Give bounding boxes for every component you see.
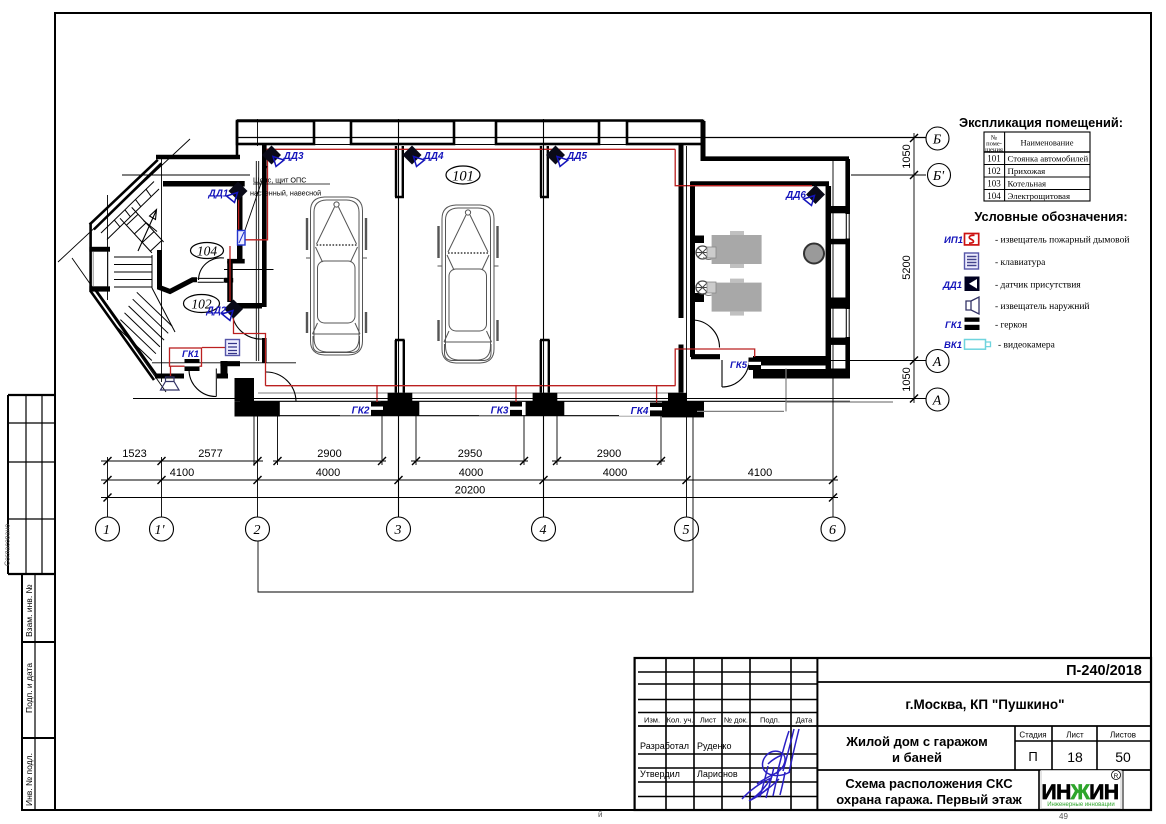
- svg-text:Ларионов: Ларионов: [697, 769, 738, 779]
- stairs flight B (horizontal treads): [114, 255, 152, 288]
- svg-text:- датчик присутствия: - датчик присутствия: [995, 281, 1081, 291]
- SW diagonal wall inner: [94, 288, 157, 377]
- garage west wall lower (below door): [262, 338, 267, 363]
- hall bottom wall: [155, 374, 184, 379]
- svg-text:Согласовано: Согласовано: [5, 524, 12, 566]
- stairs flight A lower run perpendicular band: [120, 207, 164, 253]
- svg-text:Кол. уч.: Кол. уч.: [667, 716, 694, 725]
- NE wing: corner drop: [701, 121, 706, 161]
- car 2: [438, 205, 499, 363]
- svg-text:ДД1: ДД1: [942, 280, 962, 291]
- wall axis diagonal extension lines: [58, 139, 190, 262]
- svg-text:Разработал: Разработал: [640, 741, 689, 751]
- garage east wall lower: [679, 345, 684, 393]
- svg-text:5: 5: [683, 523, 690, 538]
- svg-text:1': 1': [155, 523, 166, 538]
- svg-text:Наименование: Наименование: [1021, 138, 1074, 148]
- inner stair wall zigzag: [160, 250, 198, 292]
- left margin approval table: [8, 395, 55, 574]
- room 102 east wall: [227, 261, 233, 302]
- GK5 door arc: [722, 360, 749, 387]
- svg-text:Б: Б: [932, 133, 941, 148]
- svg-text:104: 104: [987, 191, 1001, 201]
- entry door arc: [189, 370, 216, 397]
- svg-text:50: 50: [1115, 749, 1131, 765]
- svg-text:й: й: [598, 810, 602, 819]
- svg-text:ДД2: ДД2: [205, 306, 226, 317]
- svg-text:4000: 4000: [316, 467, 340, 479]
- legend item IP1: [944, 234, 1129, 247]
- thin line across 104: [224, 269, 274, 271]
- svg-text:ДД3: ДД3: [283, 151, 304, 162]
- horizontal axis extension lines: [237, 137, 926, 139]
- jog at boiler south wall: [753, 356, 761, 379]
- room label 104: [191, 243, 224, 259]
- car 1: [306, 197, 367, 355]
- svg-text:Лист: Лист: [1066, 731, 1084, 740]
- svg-text:А: А: [932, 394, 942, 409]
- T pier axis4: [540, 340, 550, 393]
- lower door arc to garage area: [266, 372, 296, 401]
- dim texts: [122, 144, 913, 496]
- stair direction arrow: [138, 210, 157, 252]
- presence detector DD2: [205, 300, 243, 321]
- legend item keyboard: [965, 253, 1047, 269]
- svg-text:- геркон: - геркон: [995, 321, 1027, 331]
- room label 101: [446, 166, 480, 184]
- svg-text:ВК1: ВК1: [944, 340, 962, 351]
- east outer wall: [845, 159, 850, 378]
- keyboard symbol on plan: [226, 340, 240, 356]
- svg-text:Взам. инв. №: Взам. инв. №: [24, 584, 34, 637]
- stubs from inner east wall to outer: [831, 206, 849, 213]
- windows in east outer wall: [845, 214, 850, 239]
- svg-text:№ док.: № док.: [724, 716, 748, 725]
- dim row 3: [101, 497, 838, 499]
- svg-text:ГК5: ГК5: [730, 360, 748, 371]
- west window blocks: [89, 247, 110, 252]
- legend item DD1: [942, 277, 1081, 292]
- svg-text:18: 18: [1067, 749, 1083, 765]
- svg-text:Дата: Дата: [796, 716, 813, 725]
- reed switch GK5: [730, 358, 761, 372]
- svg-text:Б': Б': [932, 169, 945, 184]
- left end drop of north wall: [236, 121, 239, 158]
- reed switch GK3: [479, 402, 522, 417]
- svg-text:ГК2: ГК2: [352, 406, 370, 417]
- svg-text:R: R: [1114, 773, 1119, 780]
- left margin boxes: [22, 574, 55, 810]
- svg-text:1050: 1050: [901, 144, 913, 168]
- boiler south wall right piece: [760, 356, 831, 366]
- svg-text:- клавиатура: - клавиатура: [995, 258, 1046, 268]
- garage east wall upper: [679, 144, 684, 318]
- svg-text:104: 104: [197, 244, 218, 259]
- boiler 1: [712, 235, 762, 264]
- signature scribble: [742, 729, 799, 801]
- room label 102: [184, 295, 220, 313]
- room 104 north wall: [163, 181, 245, 187]
- reed switch GK1: [182, 349, 199, 371]
- svg-text:Стадия: Стадия: [1019, 731, 1046, 740]
- north wall pier 3: [496, 121, 599, 144]
- SE corner step blocks: [668, 393, 687, 402]
- svg-text:щения: щения: [985, 147, 1003, 154]
- svg-text:1: 1: [103, 523, 110, 538]
- presence detector DD6: [785, 185, 825, 206]
- axis circles right: [926, 127, 951, 411]
- boiler west wall: [690, 182, 695, 358]
- wall from diagonal to garage west wall: [156, 155, 240, 160]
- svg-text:Жилой дом с гаражом: Жилой дом с гаражом: [845, 734, 988, 749]
- legend item speaker: [966, 297, 1090, 314]
- svg-text:4: 4: [540, 523, 547, 538]
- svg-text:г.Москва, КП "Пушкино": г.Москва, КП "Пушкино": [905, 697, 1064, 712]
- dim ticks: [104, 134, 919, 502]
- bracket below: [258, 412, 693, 592]
- stairs flight C (diagonal treads): [116, 288, 175, 361]
- svg-text:Прихожая: Прихожая: [1008, 166, 1046, 176]
- svg-text:Руденко: Руденко: [697, 741, 731, 751]
- axis circles bottom: [96, 517, 846, 541]
- NE wing north wall: [703, 156, 849, 161]
- legend item VK1: [944, 340, 1056, 352]
- svg-text:- извещатель наружний: - извещатель наружний: [995, 301, 1090, 312]
- svg-text:ИП1: ИП1: [944, 235, 963, 246]
- svg-text:Утвердил: Утвердил: [640, 769, 680, 779]
- expansion tank: [804, 244, 824, 264]
- svg-text:ДД4: ДД4: [423, 151, 444, 162]
- svg-text:3: 3: [394, 523, 402, 538]
- svg-text:Листов: Листов: [1110, 731, 1136, 740]
- NW diagonal wall inner: [94, 163, 162, 229]
- porch gray lines: [697, 369, 893, 412]
- svg-text:ДД5: ДД5: [566, 151, 587, 162]
- svg-text:Экспликация помещений:: Экспликация помещений:: [959, 115, 1123, 130]
- boiler west wall stubs: [690, 236, 704, 244]
- pump 2: [696, 281, 709, 294]
- svg-text:2577: 2577: [198, 448, 222, 460]
- garage bay partition stub axis3: [395, 146, 404, 197]
- gate edge extension lines: [277, 416, 279, 465]
- svg-text:2900: 2900: [597, 448, 621, 460]
- presence detector DD5: [546, 146, 587, 167]
- svg-text:20200: 20200: [455, 485, 486, 497]
- T pier axis3: [395, 340, 405, 393]
- svg-text:Инв. № подл.: Инв. № подл.: [24, 753, 34, 806]
- svg-text:2950: 2950: [458, 448, 482, 460]
- svg-text:настенный, навесной: настенный, навесной: [250, 189, 321, 198]
- right vertical dim line: [913, 133, 915, 403]
- svg-text:Схема расположения СКС: Схема расположения СКС: [845, 776, 1013, 791]
- svg-text:и баней: и баней: [892, 750, 942, 765]
- stairs flight A upper run along wall: [101, 182, 159, 240]
- svg-text:- видеокамера: - видеокамера: [998, 341, 1056, 351]
- svg-text:Котельная: Котельная: [1008, 179, 1047, 189]
- svg-text:Изм.: Изм.: [644, 716, 660, 725]
- presence detector DD1: [207, 182, 247, 203]
- svg-text:4000: 4000: [459, 467, 483, 479]
- svg-text:ДД1: ДД1: [207, 189, 228, 200]
- room 104 east wall: [237, 183, 243, 259]
- svg-text:Инженерные инновации: Инженерные инновации: [1047, 802, 1115, 808]
- svg-text:102: 102: [987, 166, 1001, 176]
- svg-text:4100: 4100: [170, 467, 194, 479]
- svg-text:Условные обозначения:: Условные обозначения:: [974, 209, 1127, 224]
- OPS panel symbol: [238, 231, 246, 246]
- svg-text:ИНЖИН: ИНЖИН: [1041, 781, 1118, 804]
- 104 door opening sill: [198, 278, 224, 282]
- svg-text:- извещатель пожарный дымовой: - извещатель пожарный дымовой: [995, 235, 1129, 246]
- presence detector DD4: [403, 146, 444, 167]
- svg-text:Подп. и дата: Подп. и дата: [24, 663, 34, 713]
- boiler 2: [712, 283, 762, 312]
- garage bay partition stub axis4: [540, 146, 549, 197]
- thin jamb double line left of west wall: [256, 161, 258, 361]
- wall 102 to garage: [232, 303, 262, 309]
- boiler south wall left piece: [691, 354, 720, 359]
- reed switch GK4: [619, 403, 662, 418]
- svg-text:2900: 2900: [317, 448, 341, 460]
- svg-text:ГК1: ГК1: [182, 349, 199, 360]
- 104 door leaf: [224, 278, 233, 283]
- svg-text:Подп.: Подп.: [760, 716, 780, 725]
- SW diagonal wall outer: [91, 291, 155, 380]
- hall-garage corner wall: [220, 361, 240, 366]
- garage-corridor door arc: [692, 320, 720, 348]
- boiler north wall: [691, 181, 829, 186]
- svg-text:4100: 4100: [748, 467, 772, 479]
- svg-text:А: А: [932, 355, 942, 370]
- svg-text:5200: 5200: [901, 255, 913, 279]
- dim row 1: [101, 460, 263, 462]
- svg-text:49: 49: [1059, 812, 1068, 821]
- svg-text:101: 101: [987, 154, 1001, 164]
- svg-text:Электрощитовая: Электрощитовая: [1008, 191, 1071, 201]
- dd2 door arc: [232, 312, 262, 339]
- dim row 2: [101, 479, 838, 481]
- svg-text:ДД6: ДД6: [785, 190, 806, 201]
- sw garage block: [235, 378, 255, 401]
- bottom outer wall (porch side): [758, 369, 850, 379]
- svg-text:103: 103: [987, 179, 1001, 189]
- west wall outer face: [89, 223, 92, 292]
- south wall thin lines: [240, 400, 850, 402]
- svg-text:4000: 4000: [603, 467, 627, 479]
- INJIN logo: [1041, 771, 1121, 809]
- red security wiring: [170, 149, 813, 404]
- NW diagonal wall outer: [90, 160, 158, 225]
- north wall inner thin line: [237, 144, 703, 146]
- svg-text:П: П: [1028, 749, 1037, 764]
- svg-text:2: 2: [254, 523, 261, 538]
- pump 1: [696, 246, 709, 259]
- door stop nub: [225, 278, 231, 283]
- boiler inner east wall: [826, 186, 832, 377]
- north wall pier 4: [627, 121, 703, 144]
- 104 door arc: [199, 258, 225, 280]
- north wall pier 2: [351, 121, 454, 144]
- svg-text:1050: 1050: [901, 367, 913, 391]
- legend item GK1: [945, 318, 1027, 332]
- north wall outer line: [237, 119, 703, 122]
- svg-text:ГК4: ГК4: [631, 406, 649, 417]
- svg-text:П-240/2018: П-240/2018: [1066, 663, 1142, 679]
- presence detector DD3: [262, 146, 304, 167]
- speaker symbol on plan: [161, 377, 180, 390]
- svg-text:Стоянка автомобилей: Стоянка автомобилей: [1008, 154, 1089, 164]
- TITLE BLOCK: [635, 658, 1151, 810]
- svg-text:6: 6: [829, 523, 836, 538]
- garage west wall upper: [262, 144, 267, 307]
- svg-text:ГК1: ГК1: [945, 320, 962, 331]
- north wall pier 1: [237, 121, 314, 144]
- axis extension verticals: [107, 457, 109, 517]
- svg-text:охрана гаража. Первый этаж: охрана гаража. Первый этаж: [836, 792, 1022, 807]
- reed switch GK2: [340, 402, 383, 417]
- jog wall: [227, 259, 245, 264]
- svg-text:101: 101: [452, 169, 474, 185]
- svg-text:ГК3: ГК3: [491, 406, 509, 417]
- svg-text:Лист: Лист: [700, 716, 717, 725]
- svg-text:1523: 1523: [122, 448, 146, 460]
